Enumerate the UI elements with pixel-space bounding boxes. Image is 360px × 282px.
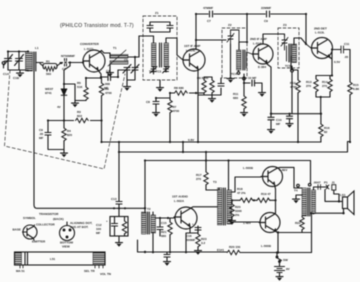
speaker feed wires [325,190,343,202]
svg-text:6.8K: 6.8K [353,87,360,91]
svg-text:TC5: TC5 [285,64,291,68]
svg-text:C13: C13 [111,197,117,201]
svg-text:R22: R22 [295,221,301,225]
svg-text:1.48V: 1.48V [243,221,251,225]
ground antenna [17,71,24,78]
Z1 primary winding [152,36,157,74]
resistor R9 [202,80,206,93]
ground battery [276,274,283,281]
emitter cluster 1st audio [186,226,198,253]
ground R5 [72,101,79,108]
wire Z2 return [243,74,245,96]
svg-text:+: + [106,219,108,223]
resistor R1 loop [40,64,60,72]
svg-text:.0047: .0047 [313,181,321,185]
Z2 trimmer cap [227,30,239,44]
resistor R22 [300,216,304,233]
det divider bottom wire [316,97,330,114]
svg-text:COLLECTOR: COLLECTOR [36,223,55,227]
svg-text:T2: T2 [147,207,151,211]
svg-text:4700: 4700 [105,91,112,95]
resistor C12R [122,217,126,237]
Z3 secondary [285,46,287,61]
resistor R6 [99,78,103,142]
Z3 winding [292,38,306,63]
svg-text:500MF: 500MF [186,238,196,242]
resistor R5 [75,72,101,101]
svg-text:L-502A: L-502A [174,199,185,203]
bus A [102,141,321,143]
svg-text:6.4BV: 6.4BV [279,168,287,172]
wire 2nd IF collector [246,14,248,40]
Z2 core [243,50,245,70]
Z3 core [289,44,291,62]
svg-text:L1: L1 [35,46,39,50]
chassis dashed outline [5,70,126,169]
ground Z2 [227,76,234,83]
transistor output bottom [259,213,280,233]
Z2 secondary winding [247,52,253,68]
wire 2nd IF top to Z3 [263,34,285,44]
resistor R10 [210,80,214,93]
svg-text:270: 270 [306,84,311,88]
capacitor C9 [45,121,64,150]
resistor R4 [62,121,66,150]
wire T3 ct [232,199,241,201]
T4 right bottom drop [311,213,313,252]
resistor R7 [168,98,172,142]
svg-text:(BACK): (BACK) [53,217,64,221]
resistor R13 [314,76,318,98]
resistor R12 [291,56,300,142]
resistor R17 [204,152,208,190]
svg-text:R9 8200: R9 8200 [197,76,209,80]
IF transformer Z3 box [278,28,299,68]
svg-text:E-384: E-384 [258,65,266,69]
resistor R3 [74,118,90,122]
bus B drop [116,152,122,208]
bus C [145,161,311,213]
capacitor C12d [287,114,293,121]
svg-text:L-5171: L-5171 [84,47,94,51]
svg-text:EMITTER: EMITTER [32,240,46,244]
svg-text:51K: 51K [77,85,83,89]
svg-text:820: 820 [67,133,72,137]
bottom rail [138,240,312,253]
wire T3 sec bot [232,221,260,223]
svg-text:VIEW: VIEW [62,245,70,249]
svg-text:T1: T1 [113,46,117,50]
svg-text:MF: MF [39,136,43,140]
svg-text:MF: MF [96,231,100,235]
resistor R11 [242,96,246,109]
trimmers TC2 TC3 [150,67,170,74]
wire AGC row [48,120,102,122]
svg-text:LS1: LS1 [340,193,346,197]
wire top antenna [8,51,28,53]
trimmer TC1 [118,65,131,85]
legend transistor symbol circle [23,225,38,240]
driver transformer T3 [206,188,232,225]
Z1 core [160,43,162,67]
ground 2nd IF bypass [268,127,275,134]
svg-text:T4: T4 [294,189,298,193]
wire Z1 to base [177,55,183,60]
ground TC1 [124,84,131,91]
svg-text:560: 560 [46,72,51,76]
svg-text:L-513L: L-513L [315,31,325,35]
ground C14 [164,259,171,266]
svg-text:TC4: TC4 [231,72,237,76]
svg-text:BASE: BASE [13,228,21,232]
emitter network 1st IF [189,71,221,142]
svg-text:C11: C11 [344,42,350,46]
svg-text:R20 150: R20 150 [229,245,241,249]
wire vol feed [34,71,145,208]
Z1 ground stub [159,80,161,85]
resistor R14 [328,76,332,98]
svg-text:L51: L51 [50,257,56,261]
svg-text:LUG AT BOT.: LUG AT BOT. [70,225,89,229]
svg-text:22MMF: 22MMF [261,6,271,10]
IF transformer Z2 box [222,28,247,78]
svg-text:270: 270 [196,177,201,181]
svg-text:MF: MF [104,86,108,90]
svg-text:SYMBOL: SYMBOL [23,216,36,220]
ground osc left [107,70,114,77]
ferrite rod L1 [15,252,106,265]
wire T2 sec [153,218,174,252]
ground R23 [195,248,202,255]
svg-text:C5: C5 [124,58,128,62]
svg-text:R1: R1 [46,60,50,64]
resistor R20b [230,201,234,219]
Z2 ground stub [230,44,232,76]
collector bottom to T4 [278,233,312,253]
svg-text:C7: C7 [207,19,211,23]
svg-text:CONVERTER: CONVERTER [80,42,100,46]
det emitter node [330,50,341,76]
svg-text:R8 680: R8 680 [174,86,184,90]
capacitor C3 [63,59,68,67]
transistor converter [83,50,105,72]
capacitor C8t [266,11,271,17]
svg-text:82: 82 [324,130,328,134]
rod terminals [20,265,103,268]
output transformer T4 [302,188,316,216]
transistor 2nd det [311,38,333,59]
svg-text:R19 47: R19 47 [261,192,271,196]
svg-text:L-514L: L-514L [186,49,196,53]
ground C10 [259,90,266,97]
capacitor C12 [106,217,118,237]
svg-text:SW: SW [283,258,288,262]
capacitor C4 [101,70,118,81]
top coupling wire [196,13,306,15]
svg-text:0.8V: 0.8V [188,138,194,142]
svg-text:4700: 4700 [173,109,180,113]
capacitor C17 [318,185,321,190]
ground T4 [293,197,300,204]
wire coil to R1 [36,62,43,64]
svg-text:MF: MF [276,122,280,126]
svg-text:J1: J1 [332,181,336,185]
svg-text:9V: 9V [286,267,290,271]
svg-text:C1A: C1A [3,72,10,76]
ground 1st IF [209,96,216,103]
Z2 lug [243,77,246,80]
Z2 primary winding [237,42,248,72]
svg-text:2ND IF AMP: 2ND IF AMP [250,37,267,41]
svg-text:L-514L: L-514L [253,42,263,46]
svg-text:MA 51: MA 51 [16,269,25,273]
antenna coil L1 [26,52,36,72]
svg-text:822: 822 [77,114,82,118]
svg-text:1ST IF AMP: 1ST IF AMP [184,44,200,48]
svg-text:C9: C9 [264,19,268,23]
trimmer C5 [127,57,139,80]
resistor R8 [170,91,189,98]
wire collector top [195,14,197,49]
ground R11 [243,109,245,110]
diode line [64,63,70,121]
capacitor C16 [192,222,201,234]
svg-text:270: 270 [322,84,327,88]
ground det [286,121,293,128]
svg-text:Z1: Z1 [155,11,159,15]
wire 2nd IF emitter down [267,64,274,127]
capacitor C14 [164,252,170,259]
transistor 1st IF amp [183,49,205,71]
resistor R21 [168,218,172,253]
capacitor C6b [218,78,224,86]
wire T4 sec top [314,187,328,190]
wire R1 to C3 [60,63,83,64]
transistor 2nd IF amp [252,44,273,64]
ground C8 [153,110,160,117]
wire T4 sec bottom [312,209,344,215]
svg-text:SEL TR: SEL TR [84,269,95,273]
plug P1 J1 [324,181,336,191]
svg-text:TC2 TC3: TC2 TC3 [149,70,162,74]
svg-text:47 2%: 47 2% [237,191,246,195]
svg-text:3.2: 3.2 [201,241,206,245]
svg-text:680: 680 [161,234,166,238]
capacitor C15 [157,227,163,236]
T4 ct ground [296,195,302,197]
det divider top wire [316,75,332,77]
C12 block [110,208,128,240]
ground AGC [63,150,65,151]
resistor R18 [240,198,257,202]
audio transformer T2 [142,212,156,236]
Z3 return drop [291,66,293,114]
speaker LS1 [343,191,355,215]
ground R20b [229,218,236,225]
svg-text:E1#1: E1#1 [217,248,224,252]
svg-text:Z3: Z3 [283,23,287,27]
tuning capacitor C1B [15,52,24,71]
svg-text:680: 680 [233,96,238,100]
transistor output top [261,167,283,190]
svg-text:4V: 4V [57,105,61,109]
antenna terminal [2,62,5,68]
wire det av [271,113,321,115]
svg-text:N750MMF: N750MMF [61,54,75,58]
diode D1 [61,89,67,95]
oscillator coil T1 [102,50,129,70]
emitter join outputs [270,189,276,213]
wire T3 sec top [229,161,262,193]
IF transformer Z1 box [143,16,177,80]
svg-text:10 MF: 10 MF [248,76,257,80]
ground C12 [116,240,123,247]
resistor R23 [196,234,200,248]
collector top to T4 [277,167,302,188]
bus A-B link [182,142,184,152]
svg-text:C15: C15 [161,221,167,225]
svg-text:VOL TN: VOL TN [100,272,111,276]
resistor R16 [319,114,323,142]
wire osc to Z1 [128,36,154,57]
svg-text:9741: 9741 [45,91,52,95]
Z3 trimmer cap [281,36,288,47]
svg-text:P1: P1 [324,181,328,185]
svg-text:.05: .05 [344,55,349,59]
capacitor C7 [209,11,214,17]
wire antenna bottom [8,69,28,71]
wire diode to ground [64,84,75,101]
svg-text:C1B: C1B [13,76,20,80]
resistor R19 [257,198,270,202]
svg-text:4700: 4700 [290,85,297,89]
Z1 top caps [147,22,173,32]
svg-text:0.5V: 0.5V [334,60,340,64]
svg-text:L-500B: L-500B [261,244,272,248]
bus B [119,142,350,153]
capacitor C10 [244,76,262,90]
svg-text:(PHILCO Transistor mod. T-7): (PHILCO Transistor mod. T-7) [60,23,134,29]
Z1 secondary winding [164,38,177,72]
svg-text:L-500B: L-500B [243,166,254,170]
svg-text:1ST AUDIO: 1ST AUDIO [172,195,189,199]
capacitor C11 [332,46,350,53]
resistor R20 [227,250,240,254]
svg-text:+: + [192,222,194,226]
svg-text:Z2: Z2 [228,23,232,27]
svg-text:TRANSISTOR: TRANSISTOR [39,212,59,216]
wire 1st IF collector to Z2 [196,39,226,41]
legend back view circle [60,222,75,241]
svg-text:T3: T3 [213,180,217,184]
T4 terminals [297,184,300,187]
wire det drop [305,14,307,44]
svg-text:2%: 2% [235,213,240,217]
transistor 1st audio [174,207,197,229]
ground Z1 [157,85,164,92]
battery B1 [275,265,285,275]
svg-text:C8: C8 [146,100,150,104]
tuning capacitor C1A [4,52,13,71]
wire Z3 to det base [306,44,311,48]
Z3 lug [291,69,294,72]
svg-text:47MMF: 47MMF [203,6,213,10]
capacitor C8 [153,98,170,110]
wire 1st audio collector [191,207,218,208]
resistor R15 [348,50,352,142]
switch S1 [276,253,281,265]
